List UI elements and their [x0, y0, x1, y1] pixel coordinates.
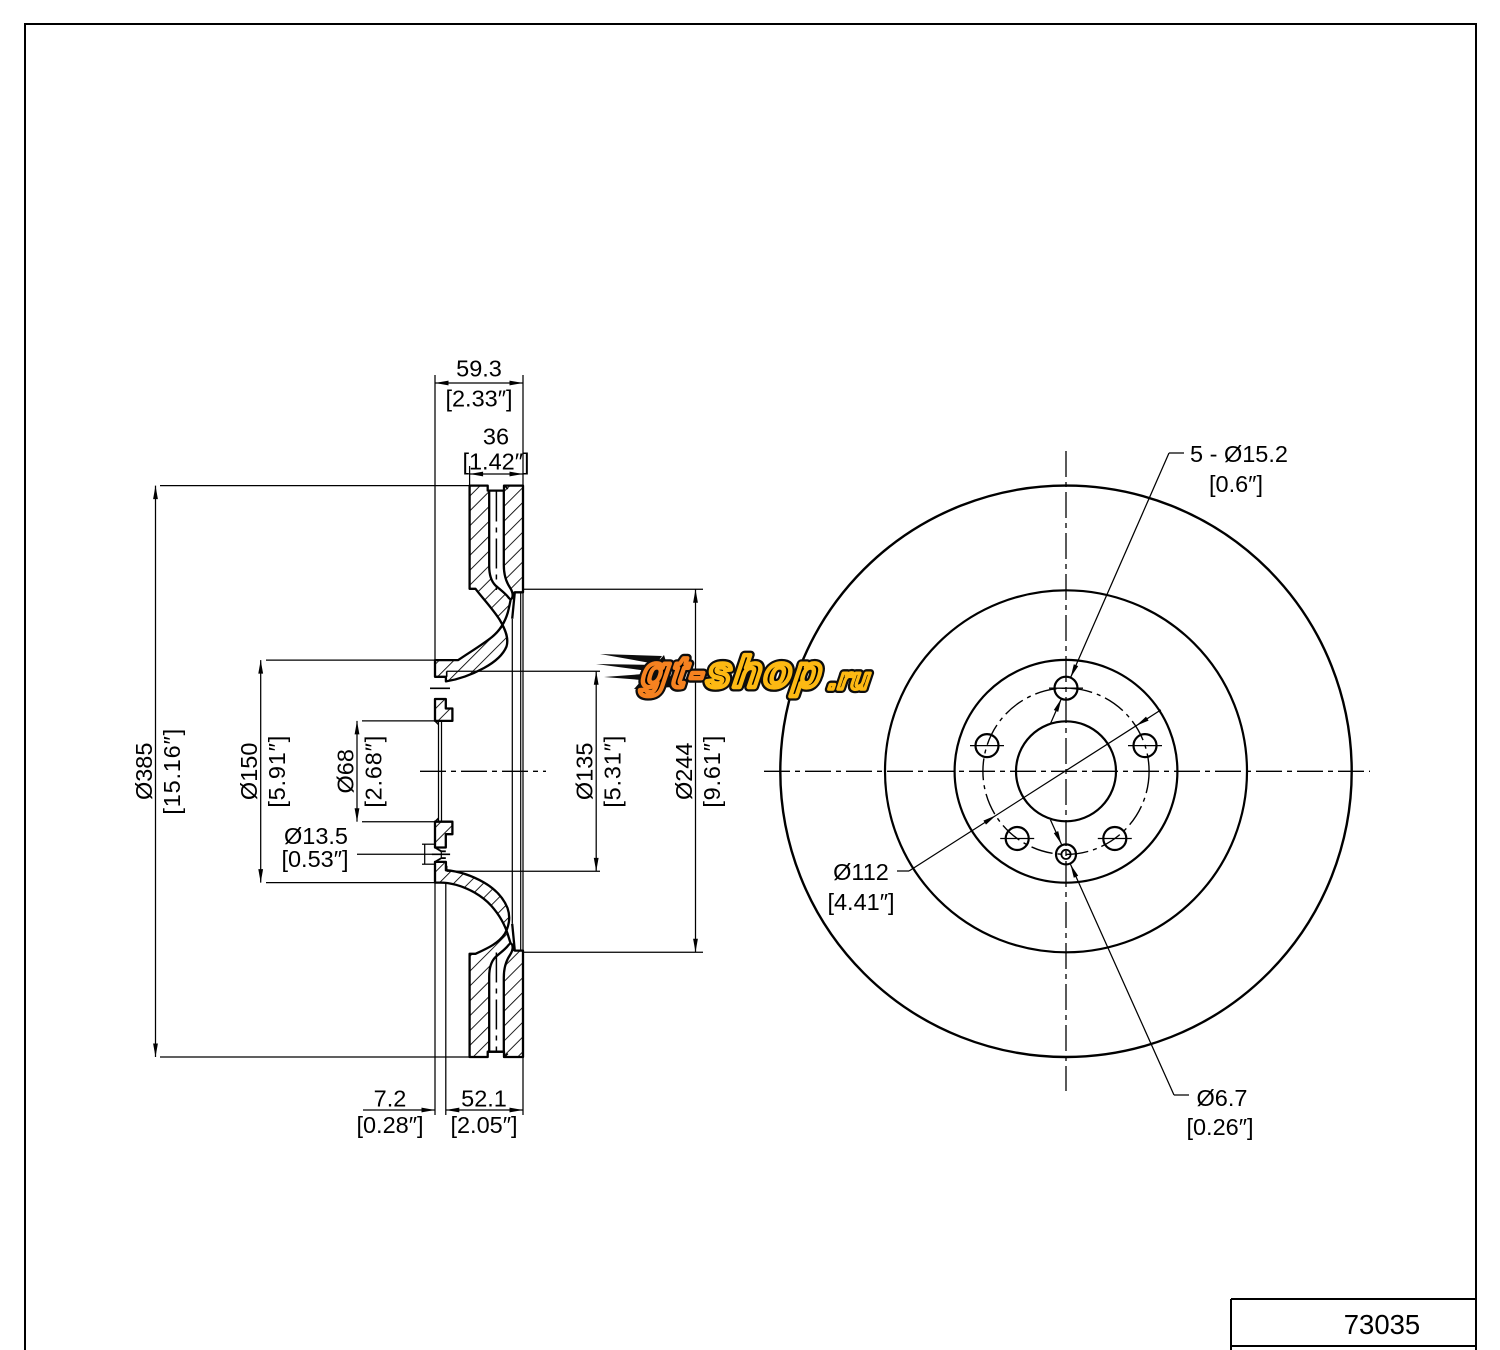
dim Ø244 [9.61"] [523, 588, 703, 590]
svg-text:shop: shop [704, 648, 828, 697]
right view: horizontal centerline [764, 770, 1370, 772]
hat drum corner steps at flange [446, 671, 448, 677]
hub flange, segment between bolt hole and centre bore [435, 699, 452, 721]
svg-text:Ø244: Ø244 [671, 743, 697, 801]
svg-text:Ø68: Ø68 [333, 749, 359, 793]
dim Ø150 [5.91"] [266, 659, 434, 661]
gt-shop.ru watermark logo [596, 648, 875, 697]
set screw hole Ø6.7 with Ø13.5 countersink (section) [435, 848, 441, 852]
bolt circle Ø112 (dash-dot) [983, 688, 1149, 854]
svg-text:7.2: 7.2 [374, 1086, 407, 1112]
extension line x=445.8 for 7.2/52.1 dims [445, 883, 447, 1115]
svg-text:73035: 73035 [1344, 1309, 1420, 1340]
hub flange, segment between bore and set screw hole [435, 822, 452, 848]
svg-text:[0.6″]: [0.6″] [1209, 471, 1263, 497]
svg-text:[2.68″]: [2.68″] [361, 735, 387, 808]
svg-text:[15.16″]: [15.16″] [159, 728, 185, 815]
svg-text:Ø385: Ø385 [131, 743, 157, 801]
svg-text:59.3: 59.3 [456, 356, 502, 382]
svg-text:[0.28″]: [0.28″] [356, 1112, 423, 1138]
dim 7.2 [0.28"] [363, 1109, 435, 1111]
extension line x=469.6 for 36 dim [469, 466, 471, 486]
svg-text:36: 36 [483, 424, 509, 450]
svg-text:[2.05″]: [2.05″] [450, 1112, 517, 1138]
dim 59.3 [2.33"] [435, 382, 523, 384]
dim 52.1 [2.05"] [446, 1109, 523, 1111]
extension line right face x=523 [522, 375, 524, 486]
bolt hole Ø15.2 in section (void) centerline [430, 687, 450, 689]
hat drum far-side edge lines [511, 619, 513, 924]
svg-text:gt-: gt- [638, 648, 711, 697]
set screw hole Ø13.5/Ø6.7 at bottom of bolt circle [1056, 844, 1076, 864]
vent channel (bottom half) [489, 944, 512, 1052]
svg-text:Ø135: Ø135 [572, 743, 598, 801]
leader Ø6.7 [1174, 1094, 1189, 1096]
five bolt holes Ø15.2 [1055, 677, 1078, 700]
centre bore Ø68 (void) chamfer edges [438, 722, 440, 822]
svg-text:Ø112: Ø112 [833, 859, 889, 885]
svg-text:[4.41″]: [4.41″] [827, 889, 894, 915]
leader Ø112 [897, 870, 909, 872]
svg-text:5 - Ø15.2: 5 - Ø15.2 [1190, 441, 1288, 467]
set screw hole centerline [432, 853, 450, 855]
speed lines [596, 654, 674, 689]
title block [1231, 1298, 1476, 1300]
svg-text:[5.91″]: [5.91″] [264, 735, 290, 808]
svg-text:[5.31″]: [5.31″] [600, 735, 626, 808]
friction ring and hat, top half (hatched section) [435, 486, 523, 682]
vent channel centerline (top) [495, 492, 497, 591]
leader 5-Ø15.2 [1169, 452, 1184, 454]
dim Ø385 [15.16"] [160, 485, 469, 487]
dim 36 [1.42"] [470, 473, 523, 475]
svg-text:[0.53″]: [0.53″] [281, 846, 348, 872]
svg-text:.ru: .ru [827, 663, 873, 696]
svg-text:[9.61″]: [9.61″] [699, 735, 725, 808]
extension line at mounting face x=435 [434, 375, 436, 660]
friction ring and hat, bottom half (hatched section) [435, 862, 523, 1057]
bolt hole center ticks [1049, 687, 1083, 689]
svg-text:[2.33″]: [2.33″] [445, 386, 512, 412]
svg-text:52.1: 52.1 [461, 1086, 507, 1112]
dim Ø68 [2.68"] [362, 720, 434, 722]
dim Ø13.5 [0.53"] leader [357, 853, 433, 855]
section view: disc axis centerline [420, 770, 546, 772]
bore chamfer diagonals [435, 721, 439, 725]
svg-text:Ø6.7: Ø6.7 [1197, 1085, 1248, 1111]
dim Ø135 [5.31"] [595, 671, 597, 871]
right plate corner chamfers [505, 486, 508, 489]
outer circle Ø385 [780, 486, 1351, 1057]
svg-text:[0.26″]: [0.26″] [1186, 1114, 1253, 1140]
circle Ø150 (hat flange) [955, 660, 1178, 883]
svg-text:Ø150: Ø150 [236, 743, 262, 801]
right view: vertical centerline [1065, 451, 1067, 1091]
svg-text:[1.42″]: [1.42″] [462, 449, 529, 475]
hat drum inner-edge lines (Ø135) [447, 670, 600, 672]
circle Ø244 (friction ring inner edge) [885, 590, 1247, 952]
centre bore Ø68 [1016, 721, 1116, 821]
vent channel (top half) [489, 491, 512, 599]
web-to-plate junction edges [512, 592, 515, 618]
vent channel centerline (bottom) [495, 953, 497, 1052]
